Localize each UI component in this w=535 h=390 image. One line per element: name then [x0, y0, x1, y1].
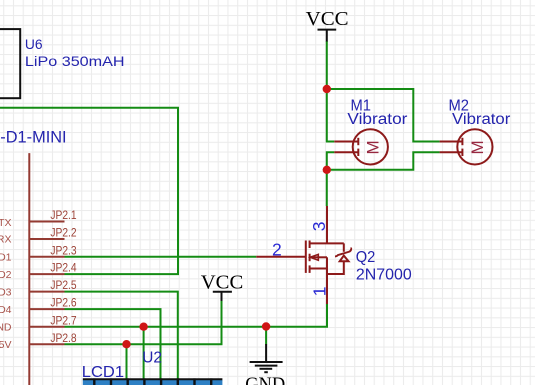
svg-text:GND: GND	[245, 374, 285, 385]
svg-text:1: 1	[310, 286, 330, 296]
svg-text:LiPo 350mAH: LiPo 350mAH	[25, 53, 125, 69]
svg-text:3: 3	[309, 222, 329, 232]
svg-text:JP2.8: JP2.8	[50, 331, 76, 345]
svg-text:U2: U2	[142, 350, 162, 367]
svg-text:JP2.4: JP2.4	[50, 261, 76, 275]
svg-text:JP2.7: JP2.7	[50, 313, 76, 327]
svg-text:Vibrator: Vibrator	[452, 111, 510, 128]
svg-text:D2: D2	[0, 269, 12, 281]
svg-text:D1: D1	[0, 252, 12, 264]
svg-text:Vibrator: Vibrator	[347, 111, 407, 128]
svg-text:VCC: VCC	[201, 272, 244, 294]
svg-text:JP2.1: JP2.1	[50, 208, 76, 222]
svg-text:2: 2	[272, 240, 282, 260]
svg-text:Q2: Q2	[356, 249, 376, 266]
svg-text:ND: ND	[0, 321, 12, 333]
svg-text:JP2.3: JP2.3	[50, 243, 76, 257]
svg-text:LCD1: LCD1	[82, 364, 124, 381]
svg-text:VCC: VCC	[306, 8, 349, 30]
svg-text:5V: 5V	[0, 339, 12, 351]
svg-text:TX: TX	[0, 217, 12, 229]
svg-text:JP2.6: JP2.6	[50, 296, 76, 310]
svg-text:2N7000: 2N7000	[356, 266, 412, 283]
svg-text:JP2.2: JP2.2	[50, 226, 76, 240]
svg-text:M: M	[364, 140, 383, 154]
svg-text:RX: RX	[0, 234, 12, 246]
svg-text:JP2.5: JP2.5	[50, 278, 76, 292]
svg-text:D4: D4	[0, 304, 12, 316]
svg-text:U6: U6	[25, 36, 43, 52]
svg-text:M: M	[468, 140, 487, 154]
svg-text:D3: D3	[0, 286, 12, 298]
svg-text:-D1-MINI: -D1-MINI	[0, 129, 66, 147]
